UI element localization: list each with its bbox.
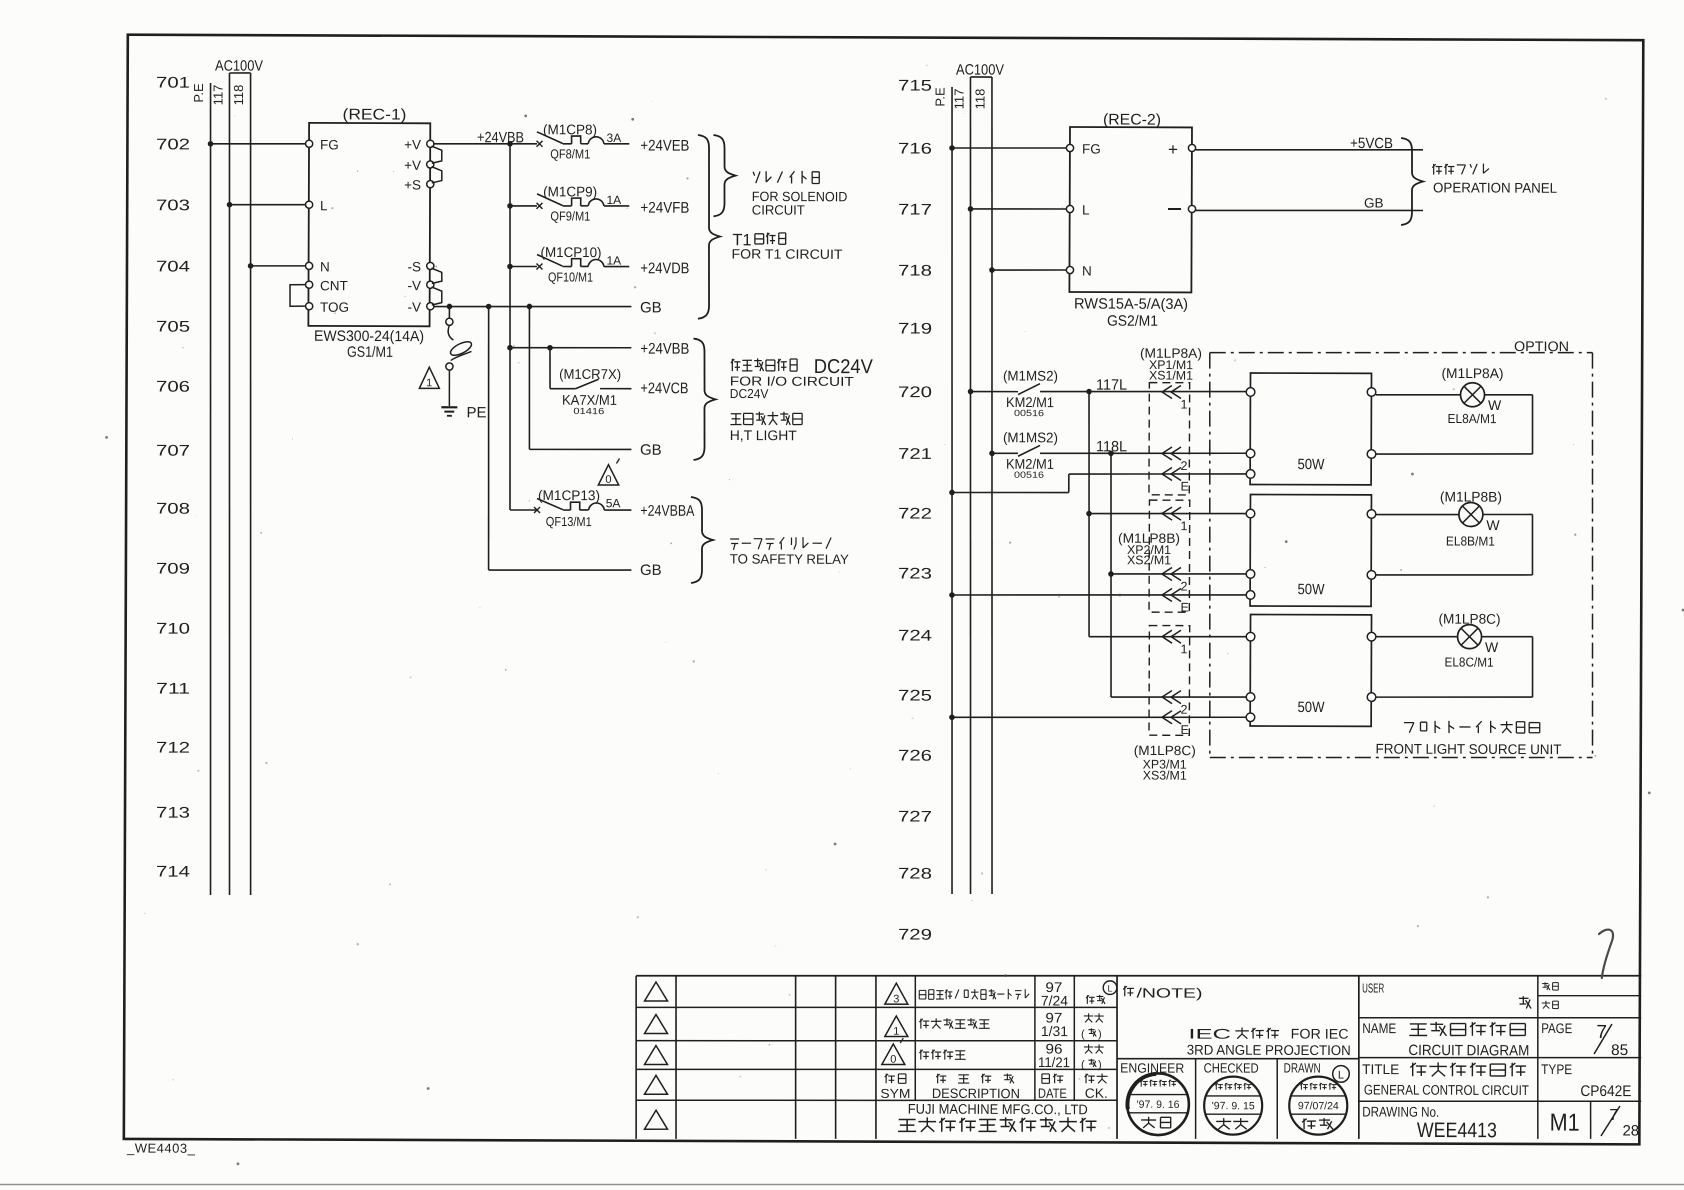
svg-text:1: 1	[893, 1026, 899, 1038]
svg-text:GB: GB	[640, 442, 662, 459]
svg-text:+V: +V	[404, 137, 421, 152]
svg-text:708: 708	[156, 501, 190, 518]
svg-text:DRAWING No.: DRAWING No.	[1362, 1103, 1439, 1119]
svg-text:(M1CP9): (M1CP9)	[543, 183, 597, 199]
svg-text:/NOTE): /NOTE)	[1136, 985, 1202, 1000]
svg-text:719: 719	[898, 321, 932, 338]
svg-text:727: 727	[898, 809, 932, 826]
svg-text:-V: -V	[408, 300, 422, 315]
svg-text:DRAWN: DRAWN	[1284, 1060, 1321, 1075]
svg-text:3A: 3A	[607, 131, 622, 145]
svg-text:725: 725	[898, 688, 932, 705]
svg-text:FUJI MACHINE MFG.CO., LTD: FUJI MACHINE MFG.CO., LTD	[908, 1101, 1088, 1118]
svg-text:P.E: P.E	[932, 87, 947, 107]
svg-text:721: 721	[898, 446, 932, 463]
svg-text:P.E: P.E	[191, 83, 206, 103]
svg-text:+24VDB: +24VDB	[640, 260, 689, 277]
svg-text:USER: USER	[1362, 980, 1384, 995]
svg-text:01416: 01416	[573, 406, 604, 416]
svg-text:1: 1	[1180, 642, 1187, 656]
svg-text:FRONT LIGHT SOURCE UNIT: FRONT LIGHT SOURCE UNIT	[1376, 741, 1562, 758]
svg-text:CP642E: CP642E	[1580, 1083, 1631, 1100]
svg-text:723: 723	[898, 566, 932, 583]
svg-text:715: 715	[898, 77, 932, 94]
svg-text:TITLE: TITLE	[1362, 1061, 1399, 1077]
svg-text:): )	[1098, 1059, 1102, 1071]
svg-text:00516: 00516	[1014, 408, 1044, 418]
svg-text:+5VCB: +5VCB	[1350, 135, 1393, 152]
svg-text:707: 707	[156, 443, 190, 460]
svg-text:713: 713	[156, 805, 190, 822]
svg-text:718: 718	[898, 262, 932, 279]
svg-text:00516: 00516	[1014, 470, 1044, 480]
svg-text:118: 118	[231, 85, 246, 106]
svg-text:(REC-2): (REC-2)	[1103, 111, 1161, 128]
svg-text:FOR IEC: FOR IEC	[1291, 1026, 1349, 1042]
svg-text:CIRCUIT: CIRCUIT	[752, 202, 805, 217]
svg-text:85: 85	[1611, 1042, 1628, 1059]
svg-text:QF9/M1: QF9/M1	[550, 208, 590, 223]
svg-text:706: 706	[156, 379, 190, 396]
svg-text:QF8/M1: QF8/M1	[550, 146, 590, 161]
svg-text:TYPE: TYPE	[1541, 1061, 1572, 1077]
svg-text:3: 3	[893, 993, 899, 1005]
svg-text:E: E	[1180, 723, 1188, 737]
svg-text:CHECKED: CHECKED	[1204, 1061, 1259, 1076]
svg-text:(REC-1): (REC-1)	[342, 106, 406, 123]
svg-text:N: N	[320, 259, 330, 274]
svg-text:-V: -V	[407, 278, 421, 293]
svg-text:(M1LP8B): (M1LP8B)	[1440, 488, 1502, 504]
svg-text:+24VEB: +24VEB	[640, 137, 689, 154]
svg-text:CK.: CK.	[1085, 1086, 1108, 1101]
svg-text:OPTION: OPTION	[1514, 338, 1569, 354]
svg-text:117: 117	[951, 89, 966, 110]
svg-text:1A: 1A	[606, 193, 621, 207]
svg-text:QF10/M1: QF10/M1	[548, 269, 593, 284]
svg-text:(M1CP13): (M1CP13)	[538, 487, 600, 503]
svg-text:1A: 1A	[606, 254, 621, 268]
svg-text:L: L	[1082, 202, 1090, 217]
svg-text:11/21: 11/21	[1038, 1054, 1070, 1070]
svg-text:(M1MS2): (M1MS2)	[1003, 429, 1058, 445]
svg-text:EL8B/M1: EL8B/M1	[1446, 533, 1495, 548]
svg-text:0: 0	[890, 1054, 896, 1066]
svg-text:XS3/M1: XS3/M1	[1143, 768, 1187, 782]
svg-text:GB: GB	[640, 299, 662, 316]
svg-text:726: 726	[898, 748, 932, 765]
svg-text:(M1CR7X): (M1CR7X)	[559, 366, 621, 382]
svg-text:28: 28	[1622, 1123, 1639, 1140]
svg-text:IEC: IEC	[1188, 1026, 1231, 1042]
svg-text:1: 1	[1181, 519, 1188, 533]
svg-text:714: 714	[156, 864, 191, 881]
svg-text:GENERAL CONTROL CIRCUIT: GENERAL CONTROL CIRCUIT	[1364, 1081, 1529, 1098]
svg-text:GS1/M1: GS1/M1	[347, 344, 393, 361]
svg-text:(M1LP8A): (M1LP8A)	[1441, 365, 1503, 381]
svg-text:EWS300-24(14A): EWS300-24(14A)	[314, 328, 424, 345]
svg-text:709: 709	[156, 561, 190, 578]
svg-text:711: 711	[156, 681, 190, 698]
svg-text:NAME: NAME	[1362, 1020, 1396, 1036]
svg-text:E: E	[1181, 601, 1189, 615]
svg-text:'97. 9. 16: '97. 9. 16	[1137, 1099, 1180, 1111]
svg-text:-S: -S	[407, 259, 421, 274]
svg-text:118: 118	[972, 89, 987, 110]
svg-text:AC100V: AC100V	[215, 58, 263, 75]
svg-text:XS2/M1: XS2/M1	[1127, 553, 1171, 567]
svg-text:AC100V: AC100V	[956, 62, 1004, 79]
svg-text:+24VFB: +24VFB	[640, 200, 689, 217]
svg-text:(: (	[1081, 1028, 1085, 1040]
svg-text:704: 704	[156, 258, 191, 275]
svg-text:703: 703	[156, 197, 190, 214]
svg-text:DESCRIPTION: DESCRIPTION	[932, 1086, 1020, 1101]
svg-text:720: 720	[898, 384, 933, 401]
svg-text:712: 712	[156, 740, 190, 757]
svg-text:(M1LP8C): (M1LP8C)	[1438, 611, 1500, 627]
svg-text:(M1CP10): (M1CP10)	[541, 244, 602, 260]
svg-text:(M1CP8): (M1CP8)	[543, 121, 597, 137]
svg-text:722: 722	[898, 506, 932, 523]
svg-text:FG: FG	[320, 137, 339, 152]
svg-text:716: 716	[898, 140, 932, 157]
svg-text:710: 710	[156, 621, 191, 638]
svg-text:RWS15A-5/A(3A): RWS15A-5/A(3A)	[1074, 296, 1188, 313]
svg-text:(: (	[1081, 1059, 1085, 1071]
svg-text:1: 1	[1180, 398, 1187, 412]
svg-text:+S: +S	[404, 178, 421, 193]
svg-text:FOR T1 CIRCUIT: FOR T1 CIRCUIT	[732, 247, 843, 262]
svg-text:0: 0	[605, 474, 611, 486]
svg-text:1/31: 1/31	[1041, 1023, 1068, 1039]
svg-text:DC24V: DC24V	[730, 386, 769, 401]
svg-text:L: L	[1107, 983, 1112, 993]
svg-text:2: 2	[1181, 580, 1188, 594]
svg-text:M1: M1	[1550, 1110, 1580, 1137]
svg-text:): )	[1098, 1029, 1102, 1041]
svg-text:705: 705	[156, 319, 190, 336]
svg-text:2: 2	[1180, 459, 1187, 473]
svg-text:W: W	[1485, 639, 1499, 655]
svg-text:GB: GB	[1364, 195, 1384, 210]
svg-text:TO SAFETY RELAY: TO SAFETY RELAY	[730, 551, 849, 566]
svg-text:CIRCUIT DIAGRAM: CIRCUIT DIAGRAM	[1408, 1042, 1529, 1059]
svg-text:1: 1	[426, 377, 432, 389]
svg-text:717: 717	[898, 201, 932, 218]
svg-text:+24VBBA: +24VBBA	[640, 503, 695, 520]
svg-text:7/24: 7/24	[1041, 993, 1068, 1009]
svg-text:117L: 117L	[1096, 377, 1127, 394]
svg-text:EL8A/M1: EL8A/M1	[1448, 411, 1497, 426]
svg-text:L: L	[1338, 1069, 1344, 1081]
svg-text:'97. 9. 15: '97. 9. 15	[1212, 1100, 1255, 1112]
svg-text:EL8C/M1: EL8C/M1	[1445, 654, 1494, 669]
svg-text:H,T LIGHT: H,T LIGHT	[730, 427, 797, 443]
svg-text:XS1/M1: XS1/M1	[1149, 369, 1193, 383]
svg-text:701: 701	[156, 75, 190, 92]
svg-text:SYM: SYM	[880, 1086, 910, 1101]
svg-text:W: W	[1486, 517, 1500, 533]
svg-text:50W: 50W	[1297, 456, 1325, 473]
svg-text:E: E	[1180, 480, 1188, 494]
svg-text:N: N	[1082, 263, 1092, 278]
svg-text:5A: 5A	[606, 496, 621, 510]
svg-text:(M1LP8C): (M1LP8C)	[1134, 743, 1196, 758]
svg-text:2: 2	[1180, 703, 1187, 717]
svg-text:GS2/M1: GS2/M1	[1107, 313, 1158, 330]
svg-text:50W: 50W	[1297, 581, 1325, 598]
svg-text:97/07/24: 97/07/24	[1298, 1100, 1339, 1112]
svg-text:OPERATION PANEL: OPERATION PANEL	[1433, 179, 1557, 195]
svg-text:(M1MS2): (M1MS2)	[1003, 367, 1058, 383]
svg-text:50W: 50W	[1297, 699, 1325, 716]
svg-text:WEE4413: WEE4413	[1417, 1119, 1497, 1142]
svg-text:+V: +V	[404, 158, 421, 173]
svg-text:724: 724	[898, 628, 933, 645]
svg-text:PAGE: PAGE	[1541, 1020, 1572, 1036]
svg-text:DATE: DATE	[1038, 1086, 1067, 1101]
svg-text:L: L	[320, 198, 328, 213]
svg-text:+24VCB: +24VCB	[640, 380, 688, 397]
svg-text:CNT: CNT	[320, 278, 348, 293]
svg-text:728: 728	[898, 866, 932, 883]
svg-text:3RD ANGLE PROJECTION: 3RD ANGLE PROJECTION	[1187, 1042, 1351, 1059]
svg-text:117: 117	[210, 85, 225, 106]
svg-text:+: +	[1168, 140, 1178, 159]
svg-text:FG: FG	[1082, 141, 1101, 156]
svg-text:+24VBB: +24VBB	[640, 341, 689, 358]
svg-text:_WE4403_: _WE4403_	[126, 1141, 196, 1156]
svg-text:GB: GB	[640, 562, 662, 579]
svg-text:PE: PE	[467, 404, 487, 421]
svg-text:702: 702	[156, 136, 190, 153]
svg-text:QF13/M1: QF13/M1	[546, 514, 592, 529]
svg-text:729: 729	[898, 927, 932, 944]
